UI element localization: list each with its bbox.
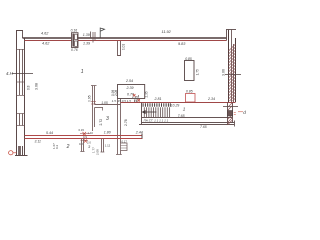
svg-text:2.72: 2.72 xyxy=(99,119,103,126)
svg-text:4.H: 4.H xyxy=(6,71,14,76)
right wall dim tick xyxy=(225,74,241,76)
wall below x102 cap xyxy=(101,151,105,153)
svg-text:1.05: 1.05 xyxy=(101,101,108,105)
left wall bottom end tick xyxy=(15,155,28,157)
right wall lower hatch xyxy=(228,103,233,125)
svg-text:0.15: 0.15 xyxy=(79,128,85,132)
svg-text:3: 3 xyxy=(106,116,109,122)
tiny marks right of chimney xyxy=(234,113,236,115)
svg-text:4.62: 4.62 xyxy=(41,32,49,36)
room 3 box outline xyxy=(118,85,145,99)
wall below x81.5 xyxy=(82,139,84,152)
left wall bottom hatch box xyxy=(19,146,23,155)
top exterior wall dark line xyxy=(23,37,227,39)
left wall segment division y49 xyxy=(17,49,25,51)
wall stub below top wall xyxy=(118,41,121,56)
shaft box inner cell 2 xyxy=(75,41,78,46)
lower corridor wall end cap xyxy=(234,121,236,127)
junction cluster at wall A bottom xyxy=(83,132,88,143)
tiny red mark cluster stair left xyxy=(133,94,140,102)
svg-text:2.39: 2.39 xyxy=(126,86,134,90)
svg-text:0.85: 0.85 xyxy=(186,90,193,94)
stair cluster extra ticks xyxy=(135,95,139,102)
red duct rect on corridor wall xyxy=(186,94,196,103)
svg-text:0.76: 0.76 xyxy=(71,48,78,52)
bottom wall end cap xyxy=(141,134,143,139)
shaft box on top wall xyxy=(72,33,79,48)
bottom wall red line 1 xyxy=(25,135,143,137)
svg-text:2.35: 2.35 xyxy=(145,91,149,97)
left wall red dimension tick xyxy=(12,73,33,75)
right wall diagonal hatch xyxy=(229,44,236,101)
tick near chimney xyxy=(223,106,238,108)
svg-text:5.44: 5.44 xyxy=(46,131,53,135)
left wall pier right face xyxy=(22,31,24,39)
svg-text:2.81: 2.81 xyxy=(154,97,162,101)
svg-text:1.39: 1.39 xyxy=(83,33,90,37)
left wall segment division y113.5 xyxy=(17,113,25,115)
svg-text:10.29: 10.29 xyxy=(171,103,180,107)
svg-text:1: 1 xyxy=(81,69,84,75)
left wall segment division y125.5 xyxy=(17,125,25,127)
svg-text:d: d xyxy=(243,110,246,115)
window symbol on wall B xyxy=(121,143,128,151)
svg-text:1.01: 1.01 xyxy=(122,44,126,50)
left exterior wall outer line xyxy=(16,31,18,156)
interior horizontal wall top line xyxy=(95,104,121,106)
left wall segment division y95 xyxy=(17,95,25,97)
lower corridor wall line 1 xyxy=(142,122,235,124)
svg-text:1.75: 1.75 xyxy=(195,69,199,75)
svg-text:2.78: 2.78 xyxy=(124,119,128,126)
svg-text:1.12: 1.12 xyxy=(105,144,111,148)
svg-text:2.08: 2.08 xyxy=(114,90,118,96)
stair arrow head xyxy=(142,110,146,114)
door tick on interior wall xyxy=(102,108,104,111)
svg-text:11.92: 11.92 xyxy=(162,30,172,34)
corridor wall line y102 xyxy=(121,102,236,104)
stair left wall xyxy=(141,103,143,126)
pillar rect xyxy=(185,61,195,81)
interior wall A (vertical double) xyxy=(93,86,95,132)
stair treads xyxy=(144,107,169,117)
flag benchmark symbol xyxy=(100,28,104,38)
stair direction arrow xyxy=(144,111,157,113)
svg-text:3.06: 3.06 xyxy=(222,69,226,76)
dark chimney box right wall xyxy=(228,111,233,117)
stair railing ticks xyxy=(143,103,170,107)
wall B bottom cap xyxy=(116,154,122,156)
right wall lower segment line 1 xyxy=(227,103,229,126)
svg-text:3.11: 3.11 xyxy=(35,140,41,144)
svg-text:0.85: 0.85 xyxy=(185,57,192,61)
red circle C tail xyxy=(13,152,16,154)
red circle C bottom left xyxy=(9,151,13,155)
shaft box dark left bar xyxy=(72,34,74,47)
wall below x102 xyxy=(102,139,104,153)
svg-text:1.10: 1.10 xyxy=(88,131,94,135)
svg-text:4.62: 4.62 xyxy=(42,42,50,46)
right wall top cap xyxy=(226,29,236,31)
stair bottom line y117.5 xyxy=(142,117,233,119)
svg-text:2: 2 xyxy=(66,144,70,150)
tick pair x93-95 xyxy=(93,32,95,43)
svg-text:ПН.СТ. 1 1 1 1 1 1: ПН.СТ. 1 1 1 1 1 1 xyxy=(144,118,169,122)
right exterior wall line 2 xyxy=(228,30,230,103)
svg-text:2.08: 2.08 xyxy=(96,149,100,155)
wall below x81.5 cap xyxy=(80,151,84,153)
leader line to d xyxy=(238,111,243,113)
svg-text:7.65: 7.65 xyxy=(200,125,207,129)
left wall segment division y82 xyxy=(17,81,25,83)
interior wall B (vertical double) xyxy=(118,99,121,155)
wall A top cap xyxy=(91,85,97,87)
svg-text:9.83: 9.83 xyxy=(178,42,186,46)
right exterior wall line 4 xyxy=(233,44,235,102)
svg-text:2.34: 2.34 xyxy=(207,97,215,101)
svg-text:1.80: 1.80 xyxy=(104,130,111,134)
junction cluster extra marks xyxy=(80,134,90,141)
svg-text:0.95: 0.95 xyxy=(88,95,92,102)
interior horizontal wall bottom line xyxy=(95,107,104,109)
bottom wall red line 2 xyxy=(25,138,143,140)
left wall mid line 2 xyxy=(22,49,24,155)
left exterior wall inner line xyxy=(24,38,26,155)
svg-text:2.54: 2.54 xyxy=(125,79,133,83)
svg-text:0.9: 0.9 xyxy=(83,135,87,139)
svg-text:1.67: 1.67 xyxy=(52,143,56,149)
right wall lower segment line 2 xyxy=(232,103,234,123)
window symbol inner lines xyxy=(121,146,128,149)
top exterior wall red line xyxy=(25,40,227,42)
right exterior wall outer line xyxy=(235,38,237,102)
tick at x90.5 xyxy=(90,32,92,39)
svg-text:1: 1 xyxy=(183,107,186,112)
svg-text:3.08: 3.08 xyxy=(35,83,39,90)
shaft box inner cell 1 xyxy=(75,34,78,39)
left wall pier cap xyxy=(16,30,23,32)
svg-text:7.65: 7.65 xyxy=(178,114,185,118)
svg-text:0.16: 0.16 xyxy=(71,29,78,33)
svg-text:0.8: 0.8 xyxy=(27,85,31,90)
svg-text:0.17: 0.17 xyxy=(122,139,128,143)
lower corridor wall line 2 xyxy=(139,124,235,126)
left wall mid line 1 xyxy=(19,49,21,155)
svg-text:1.39: 1.39 xyxy=(83,41,90,45)
right exterior wall line 3 xyxy=(231,30,233,103)
right wall corner connector xyxy=(226,30,228,41)
tick cluster below wall A top xyxy=(91,102,96,105)
